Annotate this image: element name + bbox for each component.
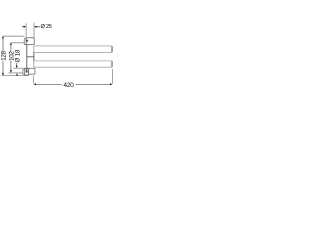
svg-text:128: 128 <box>1 51 8 61</box>
wire Ø25 right extension line <box>33 23 35 38</box>
wire 420 dimension line left <box>36 83 62 85</box>
post (vertical connector) <box>26 44 28 69</box>
wire Ø18 extension line <box>13 67 28 69</box>
wire 420 right extension line <box>112 69 114 83</box>
wedge detail top block <box>27 39 29 42</box>
wire 420 dimension line right <box>76 83 111 85</box>
svg-text:Ø 25: Ø 25 <box>41 24 52 30</box>
bar 2 right end cap <box>111 61 113 67</box>
wire 128/102 bottom extension line <box>1 75 28 77</box>
dimension Ø18 bottom arrow <box>16 66 18 68</box>
wire 420 left extension line <box>32 76 34 84</box>
svg-text:Ø 18: Ø 18 <box>15 49 22 63</box>
wall plate bottom (rosette, side) <box>23 69 25 74</box>
dimension 420 left arrow <box>34 83 36 85</box>
dimension Ø18 up arrow <box>16 73 18 75</box>
pivot pin in bottom block <box>26 69 28 73</box>
arms left end connector <box>33 46 35 67</box>
wedge detail bottom block <box>26 70 28 73</box>
svg-text:420: 420 <box>63 82 74 89</box>
wire 102 dimension line lower <box>10 61 12 71</box>
wire 102 top extension line <box>10 42 27 44</box>
bottom stub bar <box>29 68 35 74</box>
wire 128 dimension line lower <box>2 61 4 75</box>
Ø25 dimension right arrow <box>34 26 36 28</box>
towel bar 1 (upper arm) <box>34 46 113 53</box>
mounting block top <box>26 38 34 45</box>
Ø25 dimension left arrow <box>24 26 26 28</box>
mounting block bottom <box>25 69 29 75</box>
wall plate top (rosette, side) <box>24 38 26 45</box>
dimension 128 bottom arrow <box>2 73 4 75</box>
wire 102 bottom extension line (pivot base) <box>9 72 27 74</box>
wire Ø18 dimension line <box>16 63 18 68</box>
dimension 128 top arrow <box>2 36 4 38</box>
wire 128 top extension line <box>3 35 25 37</box>
wire Ø25 left extension line <box>25 23 27 38</box>
branch to arms <box>27 56 34 58</box>
wire 102 dimension line upper <box>10 43 12 52</box>
dimension 420 right arrow <box>110 83 112 85</box>
dimension 102 bottom arrow <box>10 70 12 72</box>
wire 128 dimension line upper <box>2 37 4 52</box>
towel bar 2 (lower arm) <box>34 61 113 67</box>
dimension 102 top arrow <box>10 43 12 45</box>
bar 1 right end cap <box>111 46 113 52</box>
